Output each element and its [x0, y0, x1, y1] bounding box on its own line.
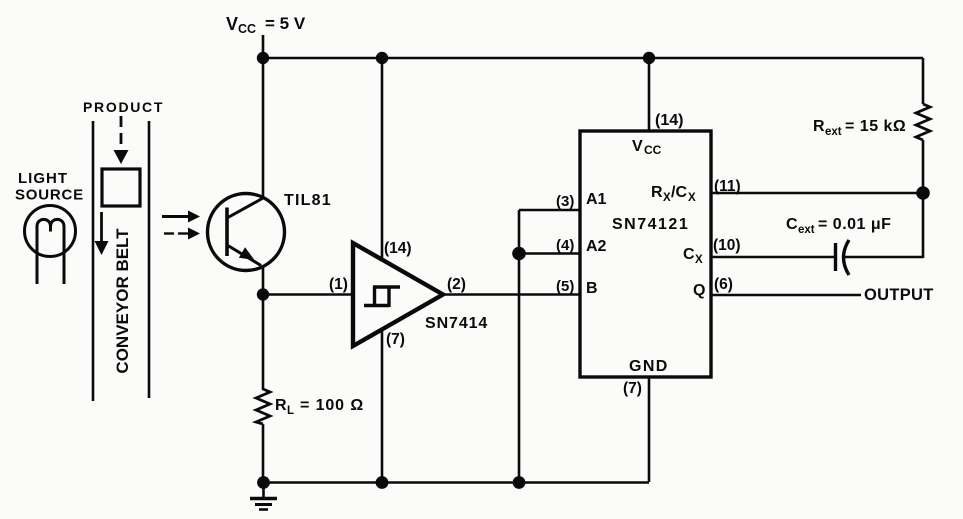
svg-text:(6): (6): [714, 276, 733, 293]
wire CX to capacitor: [711, 256, 834, 259]
svg-text:ext: ext: [798, 224, 815, 236]
capacitor Cext: [836, 240, 850, 275]
svg-text:OUTPUT: OUTPUT: [864, 286, 934, 304]
svg-text:= 100 Ω: = 100 Ω: [300, 397, 364, 414]
svg-text:R: R: [275, 397, 287, 414]
svg-text:(2): (2): [447, 276, 466, 293]
wire A1 horizontal: [519, 209, 580, 212]
svg-text:CONVEYOR BELT: CONVEYOR BELT: [113, 228, 132, 374]
ground symbol: [250, 483, 277, 510]
wire VCC stub: [262, 35, 265, 58]
svg-text:(4): (4): [556, 237, 574, 254]
svg-text:CC: CC: [644, 143, 662, 157]
wire bottom ground rail: [263, 481, 649, 484]
svg-text:(3): (3): [556, 193, 574, 210]
transistor Q1 TIL81: [208, 194, 285, 271]
junction dot ground left: [257, 476, 270, 489]
hysteresis symbol: [364, 287, 400, 307]
wire A1-A2 ground drop: [518, 210, 521, 482]
wire 74121 gnd stub: [648, 377, 651, 482]
svg-text:C: C: [786, 216, 798, 233]
wire node down to capacitor: [922, 193, 925, 258]
svg-text:SOURCE: SOURCE: [15, 187, 84, 204]
svg-text:(7): (7): [623, 380, 642, 397]
junction dot A2 tap: [512, 247, 526, 261]
label Cext value: [786, 216, 891, 236]
label RX/CX: [651, 184, 696, 204]
svg-text:CC: CC: [238, 22, 256, 36]
svg-text:B: B: [586, 280, 598, 297]
label LIGHT SOURCE: [15, 170, 84, 204]
wire right drop rail to resistor: [922, 58, 925, 104]
product box: [102, 169, 140, 206]
label CX: [683, 246, 703, 266]
wire RX/CX to resistor: [711, 192, 923, 195]
svg-text:(7): (7): [386, 331, 405, 348]
conveyor belt right line: [148, 121, 151, 398]
light arrow 1: [162, 211, 200, 223]
IC U3 SN74121 box: [580, 131, 711, 377]
label VCC inside IC: [632, 138, 662, 157]
wire Q output: [711, 294, 861, 297]
wire collector drop: [262, 58, 265, 198]
svg-text:A2: A2: [586, 238, 607, 255]
svg-text:A1: A1: [586, 191, 607, 208]
product drop arrow (dashed): [114, 116, 129, 164]
junction dot VCC-collector: [257, 52, 269, 64]
svg-text:= 15 kΩ: = 15 kΩ: [845, 118, 906, 135]
svg-text:TIL81: TIL81: [284, 192, 332, 209]
wire 74121 pin14 stub: [648, 58, 651, 131]
svg-text:/C: /C: [671, 184, 687, 201]
junction dot Rext-Cext: [916, 186, 930, 200]
svg-text:(5): (5): [556, 278, 574, 295]
belt motion arrow: [95, 212, 109, 255]
wire top VCC rail: [263, 57, 923, 60]
svg-text:GND: GND: [629, 358, 669, 375]
junction dot VCC-7414: [376, 52, 388, 64]
junction dot VCC-74121: [643, 52, 655, 64]
wire A2 horizontal: [519, 252, 580, 255]
svg-text:R: R: [651, 184, 663, 201]
svg-text:SN7414: SN7414: [425, 315, 488, 332]
svg-text:X: X: [695, 254, 703, 266]
svg-text:X: X: [663, 192, 671, 204]
svg-text:R: R: [813, 118, 825, 135]
svg-text:V: V: [226, 14, 238, 34]
wire 7414 power from rail: [381, 58, 384, 258]
svg-text:C: C: [683, 246, 695, 263]
lamp light source: [25, 206, 76, 285]
wire RL top: [262, 295, 265, 391]
svg-text:(1): (1): [329, 276, 348, 293]
svg-text:SN74121: SN74121: [612, 216, 689, 233]
svg-text:X: X: [688, 192, 696, 204]
resistor RL: [256, 389, 270, 424]
conveyor belt left line: [92, 121, 95, 401]
svg-text:ext: ext: [825, 126, 842, 138]
label Rext value: [813, 118, 906, 138]
svg-text:LIGHT: LIGHT: [18, 170, 68, 187]
junction dot emitter node: [257, 288, 269, 300]
svg-text:L: L: [287, 405, 294, 417]
svg-text:(14): (14): [655, 112, 683, 129]
wire emitter drop: [262, 265, 265, 295]
wire resistor to RX/CX node: [922, 140, 925, 193]
wire capacitor to right drop: [844, 256, 923, 259]
wire emitter to inverter input: [263, 293, 353, 296]
svg-text:= 5 V: = 5 V: [265, 14, 306, 33]
op-amp U2 SN7414 inverter triangle: [353, 243, 443, 346]
svg-text:= 0.01 μF: = 0.01 μF: [818, 216, 891, 233]
light arrow 2: [164, 228, 200, 240]
wire RL bottom: [262, 424, 265, 483]
svg-text:V: V: [632, 138, 643, 155]
junction dot ground A1A2: [513, 476, 526, 489]
svg-text:Q: Q: [693, 282, 705, 299]
svg-text:PRODUCT: PRODUCT: [83, 99, 164, 115]
wire 7414 ground to rail: [381, 330, 384, 482]
resistor Rext: [916, 104, 930, 140]
svg-text:(14): (14): [384, 240, 412, 257]
junction dot ground 7414: [376, 476, 389, 489]
svg-text:(10): (10): [713, 237, 741, 254]
label RL value: [275, 397, 364, 417]
wire inverter output to B: [443, 293, 580, 296]
node VCC label: [226, 14, 306, 36]
